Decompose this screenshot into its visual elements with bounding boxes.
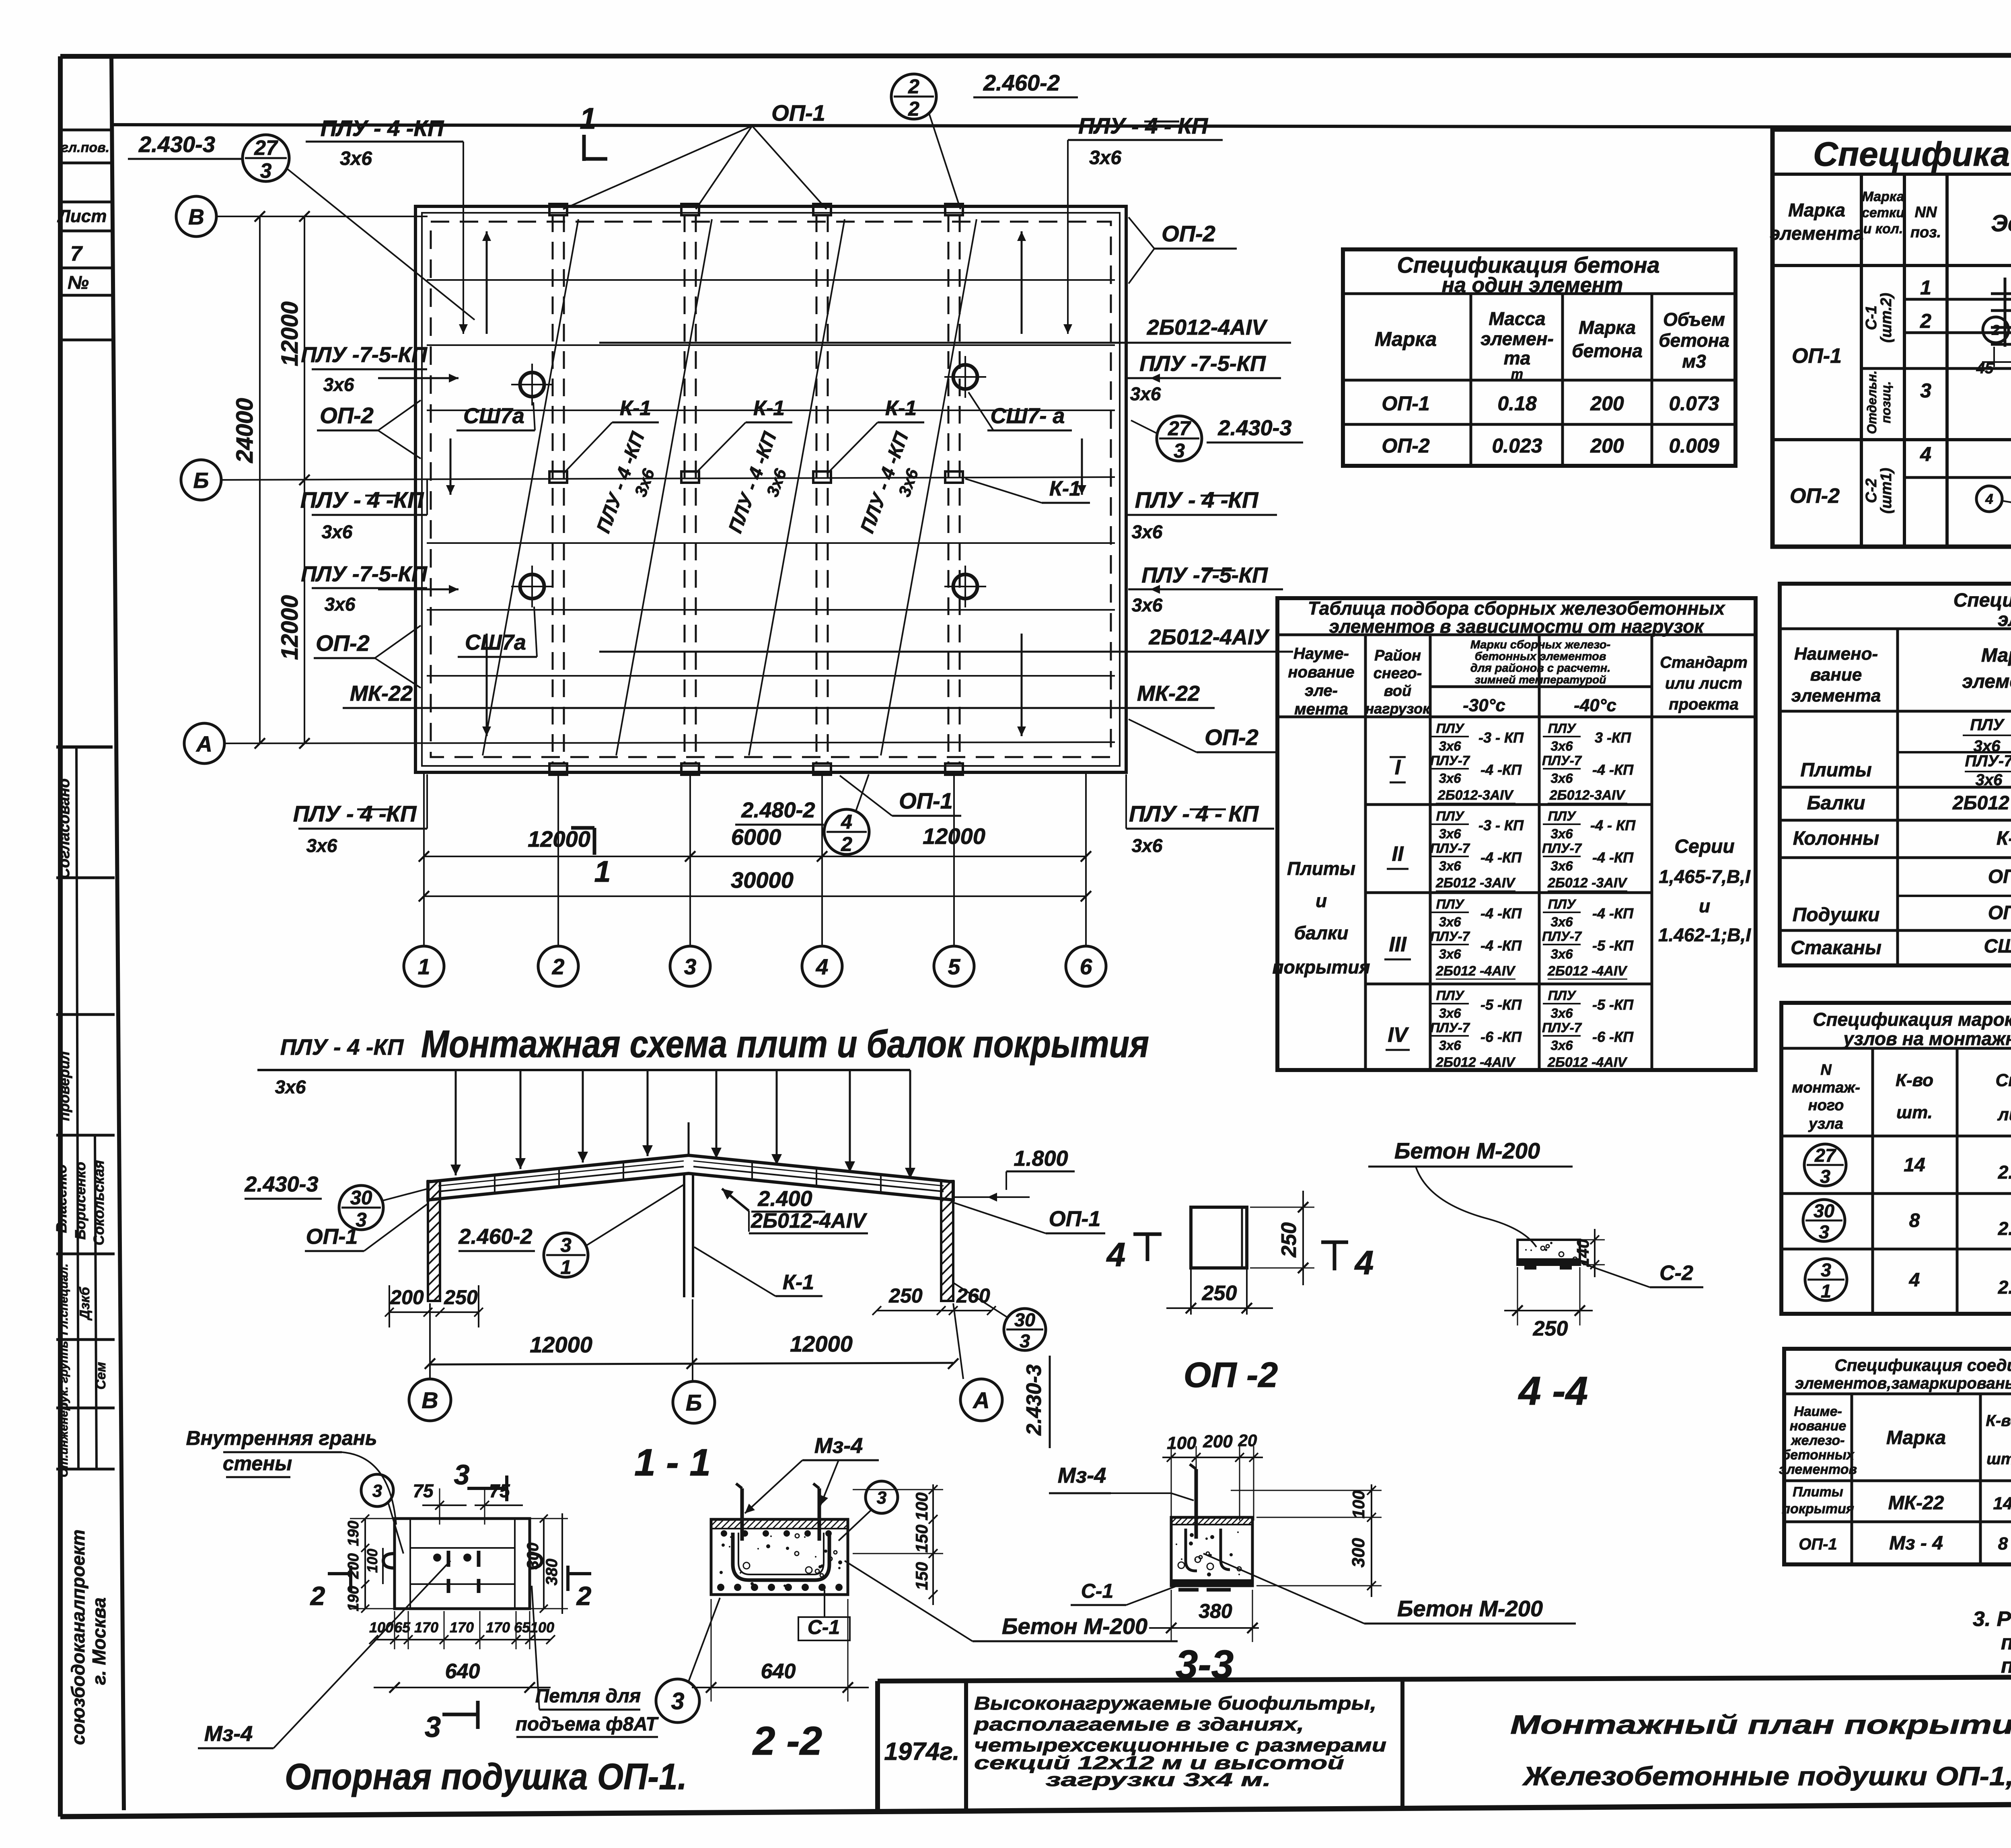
svg-text:4: 4 xyxy=(1354,1244,1374,1282)
svg-text:2 -2: 2 -2 xyxy=(752,1718,822,1764)
axis line B horizontal xyxy=(217,216,428,217)
svg-text:4: 4 xyxy=(841,811,852,833)
svg-text:3х6: 3х6 xyxy=(322,521,353,542)
svg-text:Железобетонные подушки ОП-1: Железобетонные подушки ОП-1, ОП-2. xyxy=(1522,1761,2011,1791)
OP-2 detail: square xyxy=(1191,1207,1247,1315)
svg-text:С-2: С-2 xyxy=(1659,1261,1693,1285)
svg-text:-4 -КП: -4 -КП xyxy=(1480,905,1522,922)
svg-text:-4 -КП: -4 -КП xyxy=(1480,849,1522,866)
svg-text:проекта: проекта xyxy=(1669,696,1739,713)
OP-1 detail: section marks 2 xyxy=(310,1566,592,1611)
svg-text:К-1: К-1 xyxy=(783,1271,814,1294)
svg-text:ОП-2: ОП-2 xyxy=(1205,724,1258,750)
svg-text:3х6: 3х6 xyxy=(1550,914,1573,929)
selection table header xyxy=(1288,638,1748,718)
svg-text:Высоконагружаемые биофильтры,: Высоконагружаемые биофильтры, xyxy=(974,1693,1376,1714)
mounting nodes header xyxy=(1792,1062,2011,1132)
svg-text:ПЛУ -7-5-КП: ПЛУ -7-5-КП xyxy=(301,562,428,586)
svg-text:150: 150 xyxy=(912,1562,931,1590)
svg-text:2: 2 xyxy=(1920,310,1931,332)
rotated plate labels in bays xyxy=(593,429,922,536)
svg-text:2.430-3: 2.430-3 xyxy=(138,132,215,157)
svg-text:подъема ф8АТ: подъема ф8АТ xyxy=(516,1714,659,1735)
svg-text:2: 2 xyxy=(908,75,919,98)
svg-text:ПЛУ: ПЛУ xyxy=(1436,721,1465,736)
label PLU-7-5-KP (right upper) xyxy=(1126,352,1281,404)
label PLU-7-5-KP (left upper) xyxy=(301,343,428,395)
svg-text:150: 150 xyxy=(912,1525,931,1553)
svg-text:Бетон М-200: Бетон М-200 xyxy=(1397,1596,1543,1621)
svg-text:элементов: элементов xyxy=(1779,1462,1857,1477)
table: sheet connecting elements frame xyxy=(1784,1349,2011,1564)
svg-text:ПЛУ-7: ПЛУ-7 xyxy=(1430,841,1470,856)
detail 4-4: dim 140 xyxy=(1573,1229,1605,1277)
section main dims 12000/12000 xyxy=(425,1299,963,1381)
svg-text:1: 1 xyxy=(580,102,596,135)
label PLU-4-KP (top right) xyxy=(1063,113,1223,334)
svg-text:Монтажный план покрытия.: Монтажный план покрытия. xyxy=(1510,1710,2011,1739)
label M3-4 (2-2) xyxy=(745,1434,879,1513)
label PLU-7-5-KP (left lower) xyxy=(301,562,428,615)
label 2.400 (section) xyxy=(722,1187,825,1232)
cup СШ7а a xyxy=(511,364,553,405)
svg-text:ПЛУ: ПЛУ xyxy=(1436,897,1465,912)
label 2B012-4AIV (right upper) xyxy=(599,315,1291,343)
svg-text:ОП -2: ОП -2 xyxy=(1184,1355,1278,1395)
svg-text:640: 640 xyxy=(445,1660,480,1683)
svg-text:250: 250 xyxy=(1202,1282,1237,1305)
svg-text:СШ7а: СШ7а xyxy=(465,630,526,654)
svg-text:3: 3 xyxy=(425,1711,441,1743)
grid bubble 5 xyxy=(934,946,974,986)
cup СШ7а d xyxy=(944,566,986,607)
svg-text:ПЛУ -7-5-КП: ПЛУ -7-5-КП xyxy=(1141,563,1268,587)
svg-text:N: N xyxy=(1820,1062,1832,1078)
svg-text:3: 3 xyxy=(1820,1166,1830,1187)
svg-text:IV: IV xyxy=(1388,1023,1409,1047)
svg-text:-6 -КП: -6 -КП xyxy=(1592,1029,1634,1045)
svg-text:-3 - КП: -3 - КП xyxy=(1478,729,1524,746)
svg-text:Гл.специал.: Гл.специал. xyxy=(57,1264,70,1335)
svg-text:-4 -КП: -4 -КП xyxy=(1480,761,1522,778)
svg-text:Борисенко: Борисенко xyxy=(72,1162,88,1239)
svg-text:Спецификация стали на одно: Спецификация стали на одно изделие xyxy=(1813,135,2011,173)
plan bay diagonals xyxy=(483,219,977,755)
svg-text:Марка: Марка xyxy=(1579,317,1636,338)
svg-text:В: В xyxy=(422,1388,438,1414)
svg-text:3: 3 xyxy=(260,159,272,182)
svg-text:ОП-1: ОП-1 xyxy=(771,100,825,126)
svg-text:рук. группы: рук. группы xyxy=(57,1338,70,1410)
plan slab joints xyxy=(427,280,1115,676)
detail 3-3: anchor pin xyxy=(1190,1464,1196,1539)
steel spec sketch: mesh C-1 xyxy=(1976,251,2011,377)
label Beton M-200 (3-3) xyxy=(1203,1554,1576,1624)
svg-text:3: 3 xyxy=(684,954,697,979)
svg-text:3: 3 xyxy=(877,1488,886,1508)
svg-text:узлов на монтажную схему: узлов на монтажную схему xyxy=(1842,1028,2011,1049)
svg-text:элемента: элемента xyxy=(1770,223,1864,244)
svg-text:3: 3 xyxy=(1920,379,1931,402)
label OP-2 (left upper) xyxy=(317,400,421,459)
svg-text:мента: мента xyxy=(1294,700,1348,718)
svg-text:Власенко: Власенко xyxy=(53,1165,70,1233)
svg-text:3: 3 xyxy=(1819,1221,1829,1242)
svg-text:2Б012 -4АIV: 2Б012 -4АIV xyxy=(1547,1055,1628,1070)
svg-text:бетонных: бетонных xyxy=(1782,1447,1855,1463)
table: steel spec header xyxy=(1770,189,2011,248)
section axis bubble B xyxy=(673,1381,715,1423)
svg-text:Науме-: Науме- xyxy=(1293,645,1349,663)
label K-1 (section) xyxy=(694,1247,822,1296)
svg-text:МК-22: МК-22 xyxy=(1137,681,1200,706)
plan roof beams (axes 2-5) xyxy=(549,204,963,775)
svg-text:Бетон М-200: Бетон М-200 xyxy=(1002,1613,1147,1639)
svg-text:45: 45 xyxy=(1976,360,1994,377)
svg-text:ОП-1: ОП-1 xyxy=(1988,866,2011,887)
label OP-1 (section right) xyxy=(954,1203,1105,1233)
svg-text:ного: ного xyxy=(1808,1097,1844,1114)
svg-text:2.430-3: 2.430-3 xyxy=(244,1172,318,1196)
svg-text:элемента: элемента xyxy=(1962,671,2011,692)
svg-text:380: 380 xyxy=(543,1559,561,1586)
detail 2-2: anchor pins xyxy=(736,1484,819,1541)
svg-text:2: 2 xyxy=(908,98,919,120)
svg-text:А: А xyxy=(972,1388,989,1414)
label 2.460-2 + node 3/1 (section) xyxy=(458,1185,684,1278)
svg-text:ПЛУ-7: ПЛУ-7 xyxy=(1542,929,1582,944)
section 1-1: roof slab xyxy=(428,1155,953,1200)
svg-text:2Б012 -3АIV: 2Б012 -3АIV xyxy=(1435,875,1516,891)
svg-text:или лист: или лист xyxy=(1665,675,1742,692)
svg-text:снего-: снего- xyxy=(1374,665,1422,682)
svg-text:МК-22: МК-22 xyxy=(1888,1492,1944,1514)
grid bubble 3 xyxy=(670,946,710,986)
OP-1 detail: bottom chain 100/65/170x3/65/100 xyxy=(369,1611,555,1649)
svg-text:ПЛУ: ПЛУ xyxy=(1548,988,1577,1003)
label OP-2 (right top) xyxy=(1129,217,1237,284)
svg-text:ОП-2: ОП-2 xyxy=(1988,902,2011,924)
svg-text:1: 1 xyxy=(1920,276,1931,299)
svg-text:2Б012 -4АIV: 2Б012 -4АIV xyxy=(1435,963,1516,979)
svg-text:ПЛУ-7: ПЛУ-7 xyxy=(1965,752,2011,770)
svg-text:нагрузок: нагрузок xyxy=(1365,700,1431,717)
svg-text:С-1: С-1 xyxy=(1081,1580,1114,1602)
label SSh7a (left upper) xyxy=(456,402,535,430)
svg-text:2: 2 xyxy=(576,1581,592,1611)
svg-text:170: 170 xyxy=(414,1619,438,1636)
svg-text:Мз - 4: Мз - 4 xyxy=(1889,1533,1943,1554)
section mark 1 (bottom) xyxy=(571,828,611,888)
svg-text:В: В xyxy=(188,204,204,229)
svg-text:2.430-3. Вып.3: 2.430-3. Вып.3 xyxy=(1998,1162,2011,1183)
label 2B012-4AIV (section) xyxy=(749,1209,868,1233)
label C-1 (2-2) xyxy=(798,1590,850,1640)
svg-text:27: 27 xyxy=(1814,1145,1836,1166)
svg-text:2.460-2: 2.460-2 xyxy=(458,1224,532,1249)
svg-text:бетона: бетона xyxy=(1659,330,1729,351)
svg-text:ПЛУ: ПЛУ xyxy=(1548,809,1577,823)
cup СШ7а c xyxy=(511,566,553,607)
svg-text:ПЛУ: ПЛУ xyxy=(1436,809,1465,823)
grid bubble A xyxy=(184,723,224,763)
svg-text:Б: Б xyxy=(193,468,209,493)
svg-text:0.18: 0.18 xyxy=(1497,392,1537,415)
svg-text:1,465-7,В,I: 1,465-7,В,I xyxy=(1659,866,1751,887)
svg-text:сетки: сетки xyxy=(1862,205,1904,220)
svg-text:ПЛУ-7: ПЛУ-7 xyxy=(1430,929,1470,944)
svg-text:300: 300 xyxy=(524,1543,542,1570)
svg-text:стены: стены xyxy=(223,1452,292,1475)
label K-1 (right mid) xyxy=(965,477,1090,503)
svg-text:3: 3 xyxy=(1821,1259,1831,1280)
svg-text:2.430-3: 2.430-3 xyxy=(1217,416,1291,440)
note 3 xyxy=(1973,1607,2011,1677)
svg-text:ПЛУ: ПЛУ xyxy=(1436,988,1465,1003)
svg-text:балки: балки xyxy=(1294,922,1349,943)
svg-text:2Б012-3АIV: 2Б012-3АIV xyxy=(1549,788,1626,803)
svg-text:4: 4 xyxy=(816,954,829,979)
svg-text:СШ7а: СШ7а xyxy=(1984,936,2011,957)
label PLU-4-KP (right bottom) xyxy=(1126,774,1274,856)
svg-text:II: II xyxy=(1392,842,1404,866)
svg-text:Марка: Марка xyxy=(1788,200,1845,220)
svg-text:3х6: 3х6 xyxy=(1550,826,1573,841)
detail 3-3: concrete body xyxy=(1164,1517,1256,1590)
svg-text:2.480-2: 2.480-2 xyxy=(741,798,815,822)
svg-text:2.460-2: 2.460-2 xyxy=(983,70,1060,95)
svg-text:0.023: 0.023 xyxy=(1492,434,1542,457)
svg-text:ПЛУ: ПЛУ xyxy=(1548,721,1577,736)
steel spec sketch: mesh C-2 xyxy=(1976,449,2011,538)
svg-text:К-1: К-1 xyxy=(620,397,651,420)
table: precast elements spec frame xyxy=(1780,584,2011,965)
table: mounting nodes frame xyxy=(1781,1003,2011,1314)
svg-text:1.800: 1.800 xyxy=(1014,1146,1068,1171)
svg-text:24000: 24000 xyxy=(232,398,258,463)
svg-text:300: 300 xyxy=(1349,1538,1368,1568)
svg-text:0.009: 0.009 xyxy=(1669,434,1719,457)
label OP-1 (bottom) xyxy=(840,776,961,816)
svg-text:Марка: Марка xyxy=(1862,189,1904,204)
label C-1 (3-3) xyxy=(1071,1580,1182,1605)
svg-text:2Б012 - 4АIV: 2Б012 - 4АIV xyxy=(1952,792,2011,814)
section caption 1-1 xyxy=(634,1441,711,1484)
svg-text:27: 27 xyxy=(254,136,278,159)
svg-text:3х6: 3х6 xyxy=(275,1076,306,1097)
detail 2-2: bottom dim 640 xyxy=(692,1599,869,1702)
svg-text:3х6: 3х6 xyxy=(1439,739,1461,753)
svg-text:бетона: бетона xyxy=(1572,340,1643,361)
svg-text:27: 27 xyxy=(1168,417,1191,440)
sidebar divider xyxy=(111,56,124,1810)
svg-text:2Б012-4АIУ: 2Б012-4АIУ xyxy=(1149,625,1270,649)
svg-text:2: 2 xyxy=(310,1581,325,1611)
svg-text:ОП-1: ОП-1 xyxy=(1799,1535,1837,1553)
svg-text:Мз-4: Мз-4 xyxy=(204,1722,253,1746)
svg-text:6000: 6000 xyxy=(731,824,781,850)
svg-text:3х6: 3х6 xyxy=(1550,947,1573,961)
svg-text:12000: 12000 xyxy=(277,595,303,660)
sidebar institute name xyxy=(68,1529,109,1745)
svg-text:лист проекта: лист проекта xyxy=(1997,1105,2011,1124)
svg-text:-5 -КП: -5 -КП xyxy=(1480,996,1522,1013)
mounting nodes title xyxy=(1813,1009,2011,1049)
svg-text:3: 3 xyxy=(560,1234,571,1256)
detail 3-3: right dim chain 100/300 xyxy=(1231,1484,1382,1597)
selection table left labels xyxy=(1273,756,1752,1050)
svg-text:Спецификация марок монтажных: Спецификация марок монтажных xyxy=(1813,1009,2011,1030)
table: selection by loads frame xyxy=(1277,598,1756,1070)
node 27/3 + 2.430-3 (right) xyxy=(1131,416,1303,462)
svg-text:элемен-: элемен- xyxy=(1480,328,1554,349)
svg-text:3х6: 3х6 xyxy=(306,835,337,856)
svg-text:2.430-3: 2.430-3 xyxy=(1022,1364,1046,1436)
svg-text:30: 30 xyxy=(1814,1200,1834,1221)
label Beton M-200 (4-4) xyxy=(1368,1138,1573,1247)
OP-2 detail: dim 250 bottom xyxy=(1166,1282,1273,1313)
selection table title xyxy=(1308,598,1726,637)
svg-text:Балки: Балки xyxy=(1807,792,1865,814)
svg-text:бетонных элементов: бетонных элементов xyxy=(1475,650,1606,663)
bottom dimension row 30000 xyxy=(419,867,1091,901)
svg-text:Опорная подушка ОП-1.: Опорная подушка ОП-1. xyxy=(285,1756,687,1797)
section 1-1: load arrows xyxy=(450,1070,915,1179)
svg-text:вание: вание xyxy=(1810,665,1862,685)
svg-text:Бетон М-200: Бетон М-200 xyxy=(1394,1138,1540,1163)
svg-text:поз.: поз. xyxy=(1910,224,1941,241)
svg-text:Объем: Объем xyxy=(1663,309,1725,330)
svg-text:Марка: Марка xyxy=(1375,328,1437,350)
svg-text:ОП-1: ОП-1 xyxy=(1049,1207,1101,1231)
svg-text:1: 1 xyxy=(418,954,430,979)
svg-text:Наиме-: Наиме- xyxy=(1794,1404,1842,1419)
svg-text:3х6: 3х6 xyxy=(1439,1006,1461,1021)
svg-text:Плиты: Плиты xyxy=(1287,858,1355,879)
svg-text:4 -4: 4 -4 xyxy=(1518,1369,1588,1414)
svg-text:ПЛУ - 4 -КП: ПЛУ - 4 -КП xyxy=(300,487,424,512)
svg-text:К-1: К-1 xyxy=(753,397,785,420)
grid bubble V xyxy=(176,196,216,237)
svg-text:на один элемент: на один элемент xyxy=(1442,274,1623,297)
svg-text:шт.: шт. xyxy=(1986,1450,2011,1468)
svg-text:100: 100 xyxy=(912,1492,931,1521)
svg-text:2: 2 xyxy=(841,833,852,856)
svg-text:С-2: С-2 xyxy=(1863,478,1880,503)
svg-text:3х6: 3х6 xyxy=(1439,771,1461,786)
svg-text:нование: нование xyxy=(1790,1418,1847,1434)
OP-2 detail: dim 250 right xyxy=(1250,1191,1314,1285)
svg-text:ПЛУ-7: ПЛУ-7 xyxy=(1542,1020,1582,1035)
caption 4-4 xyxy=(1518,1369,1588,1414)
label OP-2 (left lower) xyxy=(314,626,421,688)
svg-text:вой: вой xyxy=(1384,683,1411,700)
svg-text:III: III xyxy=(1389,933,1407,956)
node 3 (2-2) xyxy=(839,1481,898,1541)
svg-text:Масса: Масса xyxy=(1489,308,1545,329)
svg-text:ПЛУ - 4 -КП: ПЛУ - 4 -КП xyxy=(293,801,417,826)
plan edge arrows xyxy=(378,231,1231,736)
detail 2-2: right dim chain 100/150/150 xyxy=(853,1484,943,1605)
svg-text:3х6: 3х6 xyxy=(1439,914,1461,929)
svg-text:3х6: 3х6 xyxy=(1550,739,1573,753)
svg-text:3: 3 xyxy=(1020,1330,1030,1351)
node 30/3 rotated 2.430-3 (section right) xyxy=(954,1283,1050,1448)
svg-text:200: 200 xyxy=(390,1286,424,1309)
label K-1 #2 xyxy=(695,397,792,474)
vertical dimensions 12000/12000 xyxy=(277,211,310,749)
svg-text:и кол.: и кол. xyxy=(1863,221,1903,237)
svg-text:1: 1 xyxy=(1821,1280,1831,1301)
svg-text:-4 - КП: -4 - КП xyxy=(1590,817,1636,833)
vertical dimension 24000 xyxy=(232,211,265,749)
svg-text:170: 170 xyxy=(486,1619,510,1636)
svg-text:м3: м3 xyxy=(1682,351,1706,372)
svg-text:2.430-3. Вып.3: 2.430-3. Вып.3 xyxy=(1998,1218,2011,1239)
label MK-22 (left) xyxy=(343,681,475,708)
svg-text:2Б012-3АIV: 2Б012-3АIV xyxy=(1437,788,1514,803)
svg-text:-4 -КП: -4 -КП xyxy=(1592,761,1634,778)
svg-text:ПЛУ - 4 -КП: ПЛУ - 4 -КП xyxy=(321,115,444,141)
title block xyxy=(878,1675,2011,1813)
svg-text:зимней температурой: зимней температурой xyxy=(1475,673,1606,686)
title block: sheet name xyxy=(1510,1710,2011,1791)
section axis bubble V xyxy=(409,1379,451,1421)
detail 2-2: concrete body xyxy=(702,1519,853,1595)
caption 2-2 xyxy=(752,1718,822,1764)
label OP-1 (top) xyxy=(563,100,827,209)
section 1-1: load line and label xyxy=(257,1034,910,1097)
svg-text:380: 380 xyxy=(1199,1600,1232,1622)
svg-text:ОП-1: ОП-1 xyxy=(899,788,953,813)
svg-text:К-1: К-1 xyxy=(1049,477,1081,500)
svg-text:МК-22: МК-22 xyxy=(350,681,413,706)
svg-text:Стандарт: Стандарт xyxy=(1660,654,1748,671)
svg-text:3х6: 3х6 xyxy=(1089,147,1121,169)
label K-1 #1 xyxy=(563,397,659,474)
inner top rule xyxy=(113,125,2011,128)
node 3 (OP-1 hook) xyxy=(361,1474,403,1554)
section dims 200/250 xyxy=(385,1285,483,1327)
svg-text:ПЛУ - 4 -КП: ПЛУ - 4 -КП xyxy=(280,1034,404,1060)
svg-text:№: № xyxy=(68,272,89,293)
section 1-1: column K-1 xyxy=(684,1122,693,1297)
svg-text:2: 2 xyxy=(1991,323,2000,338)
svg-text:2: 2 xyxy=(552,954,565,979)
svg-text:Колонны: Колонны xyxy=(1793,828,1879,849)
svg-text:3: 3 xyxy=(454,1459,470,1490)
svg-text:по серии 1.462-1, В.1, л.: по серии 1.462-1, В.1, л. 18. xyxy=(2001,1654,2011,1677)
svg-text:Отдельн.: Отдельн. xyxy=(1865,370,1879,434)
svg-text:и: и xyxy=(1316,890,1327,911)
svg-text:ПЛУ: ПЛУ xyxy=(1548,897,1577,912)
svg-text:640: 640 xyxy=(761,1660,796,1683)
svg-text:2Б012 -3АIV: 2Б012 -3АIV xyxy=(1547,875,1628,891)
sidebar stamp cells xyxy=(57,130,111,340)
svg-text:ПЛУ -7-5-КП: ПЛУ -7-5-КП xyxy=(301,343,428,367)
OP-1 detail: left dim chain xyxy=(345,1515,402,1613)
svg-text:3. Разбивку закладных маро: 3. Разбивку закладных марок в балках для… xyxy=(1973,1607,2011,1631)
svg-text:250: 250 xyxy=(1533,1317,1568,1340)
label 2.430-3 + node 30/3 (section) xyxy=(244,1172,428,1231)
caption OP-2 xyxy=(1184,1355,1278,1395)
svg-text:Мз-4: Мз-4 xyxy=(814,1434,863,1458)
svg-text:30: 30 xyxy=(1014,1309,1035,1330)
svg-text:12000: 12000 xyxy=(790,1331,853,1356)
plan outer contour xyxy=(415,206,1126,772)
svg-text:проверил: проверил xyxy=(56,1051,72,1121)
svg-text:С-1: С-1 xyxy=(1863,305,1880,330)
